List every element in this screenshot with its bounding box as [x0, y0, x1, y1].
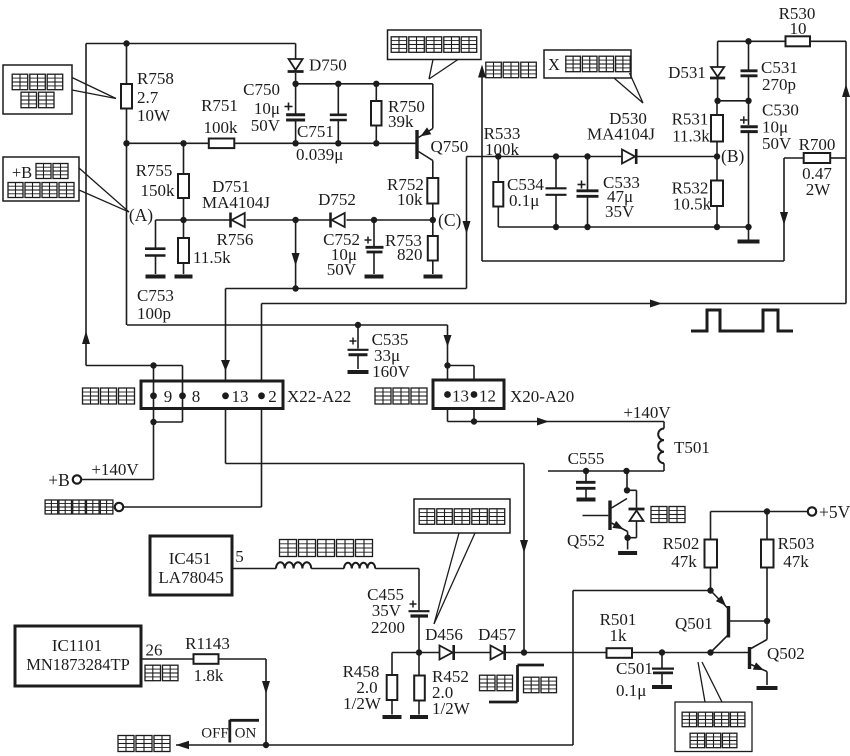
- svg-text:50V: 50V: [762, 134, 792, 153]
- svg-text:100k: 100k: [204, 118, 239, 137]
- svg-text:8: 8: [192, 387, 201, 406]
- svg-text:47k: 47k: [783, 552, 809, 571]
- svg-text:11.5k: 11.5k: [193, 248, 231, 267]
- svg-text:C753: C753: [137, 286, 174, 305]
- svg-text:2.7: 2.7: [137, 88, 159, 107]
- svg-text:+B: +B: [48, 470, 70, 490]
- svg-text:820: 820: [397, 245, 423, 264]
- svg-text:100p: 100p: [137, 304, 171, 323]
- svg-text:C750: C750: [243, 80, 280, 99]
- svg-text:R751: R751: [201, 96, 238, 115]
- svg-text:X: X: [548, 55, 560, 74]
- svg-text:10k: 10k: [397, 190, 423, 209]
- svg-text:1k: 1k: [610, 626, 628, 645]
- svg-text:10: 10: [790, 19, 807, 38]
- svg-text:12: 12: [479, 387, 496, 406]
- svg-text:C555: C555: [568, 449, 605, 468]
- svg-text:13: 13: [232, 387, 249, 406]
- svg-text:IC451: IC451: [169, 549, 212, 568]
- svg-text:R755: R755: [136, 161, 173, 180]
- svg-text:D456: D456: [425, 625, 463, 644]
- svg-text:R1143: R1143: [185, 634, 230, 653]
- svg-text:39k: 39k: [388, 112, 414, 131]
- svg-text:LA78045: LA78045: [158, 568, 223, 587]
- svg-text:1/2W: 1/2W: [432, 699, 471, 718]
- svg-text:Q552: Q552: [567, 531, 605, 550]
- svg-text:0.1μ: 0.1μ: [509, 191, 539, 210]
- svg-text:150k: 150k: [141, 181, 176, 200]
- svg-text:R758: R758: [137, 69, 174, 88]
- svg-text:100k: 100k: [485, 140, 520, 159]
- svg-text:0.039μ: 0.039μ: [296, 145, 343, 164]
- svg-text:D750: D750: [309, 56, 347, 75]
- svg-text:R756: R756: [217, 230, 254, 249]
- svg-text:160V: 160V: [372, 362, 411, 381]
- svg-text:Q750: Q750: [431, 137, 469, 156]
- svg-text:11.3k: 11.3k: [672, 127, 710, 146]
- svg-text:2200: 2200: [371, 618, 405, 637]
- svg-text:26: 26: [146, 641, 163, 660]
- svg-text:+B: +B: [12, 163, 32, 182]
- svg-text:0.1μ: 0.1μ: [616, 681, 646, 700]
- svg-text:270p: 270p: [762, 75, 796, 94]
- svg-text:Q501: Q501: [675, 614, 713, 633]
- svg-text:(B): (B): [721, 146, 745, 166]
- svg-text:D457: D457: [478, 625, 516, 644]
- svg-text:(C): (C): [438, 210, 462, 230]
- svg-text:OFF: OFF: [201, 726, 229, 742]
- svg-text:D752: D752: [318, 190, 356, 209]
- svg-text:1.8k: 1.8k: [194, 666, 224, 685]
- svg-text:R502: R502: [663, 534, 700, 553]
- svg-text:50V: 50V: [327, 260, 357, 279]
- svg-text:2W: 2W: [806, 180, 832, 199]
- svg-text:+5V: +5V: [819, 502, 850, 522]
- svg-text:+140V: +140V: [91, 460, 139, 479]
- svg-text:R700: R700: [799, 135, 836, 154]
- svg-text:MA4104J: MA4104J: [202, 193, 270, 212]
- svg-text:2: 2: [268, 387, 277, 406]
- svg-text:IC1101: IC1101: [52, 636, 102, 655]
- svg-text:13: 13: [452, 387, 469, 406]
- svg-text:+140V: +140V: [623, 403, 671, 422]
- svg-text:MA4104J: MA4104J: [587, 125, 655, 144]
- svg-text:D531: D531: [668, 63, 706, 82]
- svg-text:50V: 50V: [251, 116, 281, 135]
- svg-text:1/2W: 1/2W: [343, 694, 382, 713]
- svg-text:Q502: Q502: [767, 644, 805, 663]
- svg-text:X22-A22: X22-A22: [287, 387, 351, 406]
- svg-text:10W: 10W: [137, 106, 171, 125]
- svg-text:(A): (A): [129, 205, 153, 225]
- svg-text:47k: 47k: [671, 552, 697, 571]
- svg-text:MN1873284TP: MN1873284TP: [26, 655, 130, 674]
- svg-text:35V: 35V: [605, 202, 635, 221]
- svg-text:9: 9: [164, 387, 173, 406]
- svg-text:5: 5: [235, 547, 244, 566]
- svg-text:R503: R503: [778, 534, 815, 553]
- svg-text:ON: ON: [235, 726, 257, 742]
- svg-text:C751: C751: [297, 122, 334, 141]
- svg-text:X20-A20: X20-A20: [510, 387, 574, 406]
- svg-text:10.5k: 10.5k: [673, 195, 712, 214]
- svg-text:C501: C501: [616, 659, 653, 678]
- svg-text:T501: T501: [674, 438, 710, 457]
